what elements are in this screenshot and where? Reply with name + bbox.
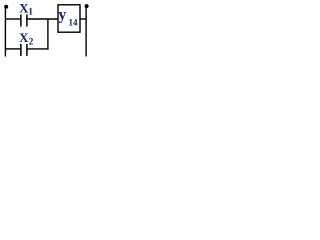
wire coil output to right rail bbox=[79, 18, 86, 20]
wire bottom rung left segment bbox=[5, 48, 21, 50]
contact X1 right bar bbox=[26, 15, 28, 27]
contact X2 right bar bbox=[26, 44, 28, 56]
wire left rail bbox=[4, 7, 6, 57]
node dot right power rail junction bbox=[85, 4, 89, 8]
contact X2 left bar bbox=[20, 44, 22, 56]
wire bottom rung right segment bbox=[27, 48, 48, 50]
contact X1 left bar bbox=[20, 15, 22, 27]
svg-text:2: 2 bbox=[29, 38, 34, 48]
node dot left power rail junction bbox=[4, 5, 8, 9]
svg-text:X: X bbox=[19, 30, 29, 45]
coil box y14 bbox=[58, 5, 80, 32]
wire right rail bbox=[85, 7, 87, 57]
wire top rung right segment bbox=[27, 18, 58, 20]
wire top rung left segment bbox=[5, 18, 21, 20]
svg-text:14: 14 bbox=[69, 17, 79, 27]
svg-text:y: y bbox=[59, 7, 67, 24]
svg-text:1: 1 bbox=[28, 7, 33, 17]
wire parallel branch merge vertical bbox=[47, 19, 49, 50]
